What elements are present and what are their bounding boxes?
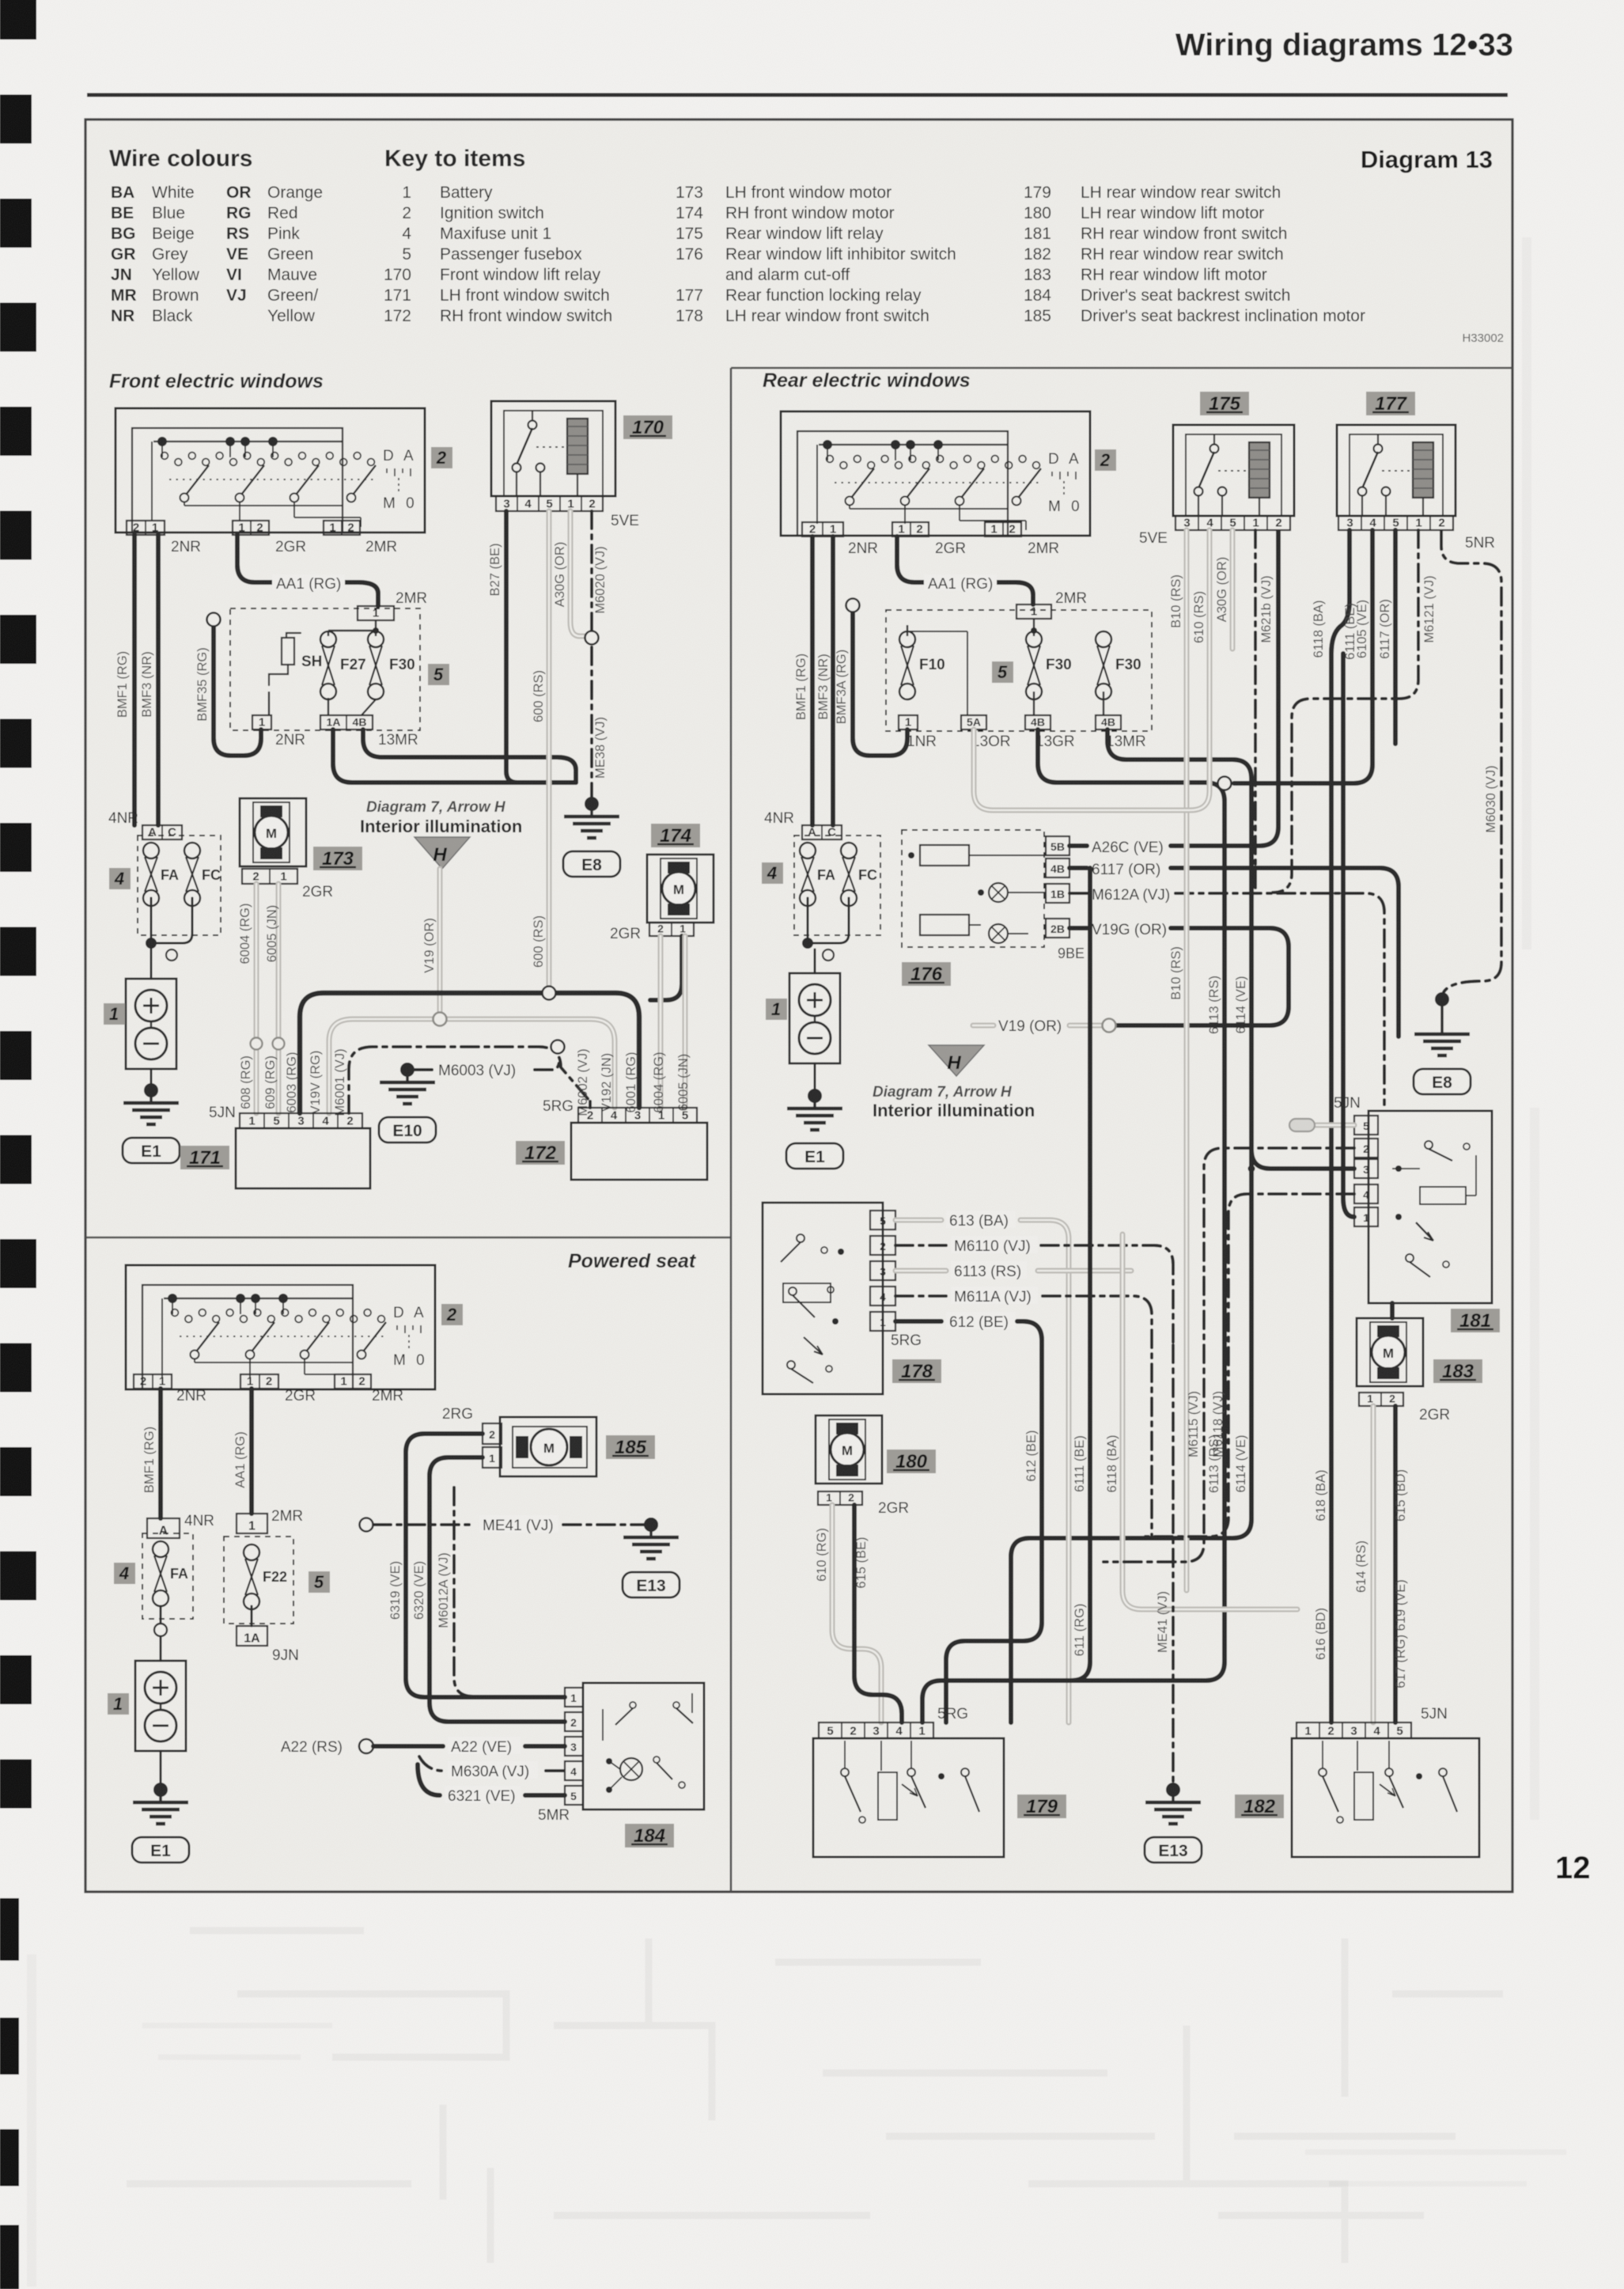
- connector 2GR motor 173: [242, 869, 333, 900]
- passenger fusebox 5 (front): [230, 608, 420, 730]
- switch 171 LH front window switch: [236, 1113, 370, 1188]
- wire M630A (VJ): [419, 1757, 565, 1780]
- wire from 4B hairpin upper: [363, 730, 576, 783]
- wire 6118 (BA) relay177: [1312, 530, 1350, 1198]
- title Diagram 13: [1361, 146, 1493, 173]
- connector 2NR seat: [134, 1374, 172, 1389]
- connector 2GR motor 174: [610, 923, 694, 943]
- fusebox 5 (seat): [224, 1537, 293, 1624]
- binding holes left edge: [0, 0, 36, 2289]
- connector motor 185: [442, 1406, 502, 1468]
- connector 2GR under ignition: [233, 521, 269, 535]
- label 2GR: [275, 539, 306, 555]
- label 183: [1433, 1359, 1482, 1383]
- wires maxifuse to battery rear: [802, 898, 849, 973]
- label 5: [992, 661, 1013, 683]
- connector 2NR rear: [802, 522, 843, 536]
- connector 5A / 13OR: [961, 715, 1011, 750]
- label 5JN: [209, 1105, 236, 1121]
- label 1: [766, 999, 787, 1020]
- label 178: [892, 1359, 941, 1383]
- scan bleed-through (decorative): [127, 1931, 1503, 2263]
- connector 1A 4B bottom of fusebox: [320, 698, 418, 748]
- wire BMF1 (RG): [115, 535, 134, 825]
- switch 172 RH front window switch: [571, 1108, 707, 1180]
- legend: Key to items: [384, 146, 1365, 325]
- wire BMF35 (RG) from fusebox 1: [195, 613, 261, 756]
- label 173: [313, 847, 362, 870]
- ground E1 (rear): [814, 1063, 816, 1090]
- wire M6030 (VJ): [1441, 532, 1501, 992]
- motor 185 seat backrest inclination: [500, 1417, 596, 1476]
- label 170: [623, 415, 672, 439]
- wire AA1 (RG) rear: [897, 536, 1033, 604]
- wire M612A (VJ): [1069, 887, 1384, 1105]
- wire V19 (OR) row: [973, 1018, 1116, 1035]
- wire AA1 (RG) seat: [233, 1389, 252, 1514]
- label 2NR: [848, 540, 878, 557]
- section label: Front electric windows: [109, 370, 324, 392]
- wire 6105 (VE) relay177: [1218, 530, 1373, 790]
- wire 6111 (BE): [1052, 868, 1090, 1681]
- ground E1 (seat): [160, 1751, 162, 1784]
- connector cells of 184: [565, 1688, 583, 1805]
- wire maxifuse to battery seat: [154, 1606, 167, 1661]
- label 4: [762, 862, 783, 884]
- connector 2GR seat: [240, 1374, 278, 1389]
- wire from 1A hairpin: [333, 730, 576, 783]
- connector 1 / 2NR bottom of fusebox: [252, 692, 305, 748]
- connector 4B / 13MR: [1096, 692, 1146, 750]
- wire 6111 (BE) top right: [1343, 603, 1357, 1217]
- connector relay 177: [1338, 516, 1453, 530]
- connector 1 / 2MR fusebox seat: [237, 1508, 303, 1533]
- wire to motor 183: [1390, 1303, 1395, 1318]
- outer border box: [85, 119, 1512, 1892]
- wires maxifuse to battery: [146, 898, 192, 979]
- ground E1 (front): [150, 1069, 153, 1086]
- label 5MR: [538, 1807, 570, 1824]
- wire 6117 (OR) relay177 down: [1378, 530, 1395, 744]
- wire 610 (RG) motor 180: [815, 1505, 881, 1722]
- label 172: [516, 1141, 565, 1165]
- maxifuse connector 4NR rear: [764, 810, 842, 839]
- wire 6321 (VE): [418, 1764, 565, 1805]
- relay 177 rear function locking relay: [1337, 425, 1456, 516]
- switch 181 RH rear window front switch: [1368, 1111, 1492, 1303]
- wire BMF1 (RG) seat: [142, 1389, 161, 1518]
- label 4: [114, 1563, 135, 1584]
- wire 600 (RS): [532, 511, 549, 993]
- wire A26C (VE): [1069, 532, 1278, 856]
- passenger fusebox 5 (rear): [886, 610, 1152, 731]
- label 181: [1451, 1309, 1500, 1332]
- label 1: [104, 1003, 125, 1025]
- wire M6110 (VJ): [895, 1236, 1173, 1345]
- label 5VE: [1139, 530, 1168, 547]
- fuse F30: [368, 631, 415, 699]
- switch 184 driver seat backrest switch: [583, 1683, 704, 1810]
- fuse F30 (first): [1026, 631, 1072, 699]
- maxifuse 4 (seat): [142, 1533, 193, 1619]
- wire 613 (BA): [895, 1211, 1069, 1722]
- wire AA1 (RG): [237, 535, 378, 606]
- rear window lift inhibitor switch 176: [902, 830, 1046, 947]
- label 5RG: [543, 1098, 574, 1115]
- wire M6012A (VJ): [437, 1487, 554, 1696]
- motor 174 RH front window: [647, 855, 714, 923]
- legend: Wire colours: [109, 146, 323, 325]
- wire BMF3 (NR) rear: [816, 536, 833, 825]
- wire 612 (BE): [895, 1312, 1042, 1722]
- switch 178 LH rear window front switch: [763, 1203, 883, 1394]
- label 2GR: [285, 1388, 316, 1404]
- label 2MR: [396, 590, 427, 607]
- switch 182 RH rear window rear switch: [1292, 1722, 1479, 1857]
- ignition switch 2 (powered seat): [126, 1265, 435, 1389]
- fuse F27: [320, 631, 366, 699]
- relay 175 rear window lift relay: [1173, 425, 1294, 516]
- wire ME41 (VJ) to E13 rear: [1156, 1345, 1173, 1783]
- label 176: [902, 962, 951, 986]
- label 180: [887, 1450, 936, 1473]
- connector 9BE of 176: [1046, 836, 1085, 961]
- label 5: [428, 664, 449, 685]
- connector 1 / 1NR: [899, 715, 937, 750]
- wire 6117 (OR): [1069, 862, 1399, 1036]
- label 5VE: [611, 513, 639, 529]
- header: Wiring diagrams 12-33: [1175, 28, 1513, 63]
- connector motor 183: [1359, 1393, 1450, 1424]
- ground E8 (rear): [1414, 992, 1471, 1094]
- motor 173 LH front window: [240, 798, 306, 866]
- label 2: [431, 447, 452, 468]
- wire M621b (VJ): [1255, 530, 1274, 892]
- motor 180 LH rear window lift: [816, 1415, 882, 1484]
- battery 1 (front): [126, 979, 176, 1069]
- wires motor 173 to switch 171: [238, 884, 285, 1113]
- wire M6003 (VJ) to E10: [415, 1060, 559, 1079]
- connector A / 4NR seat: [147, 1513, 214, 1538]
- label 5JN: [1421, 1706, 1448, 1722]
- connector 2MR rear fusebox top: [1016, 590, 1087, 619]
- wire BMF3A (RG) rear: [835, 599, 907, 756]
- relay 170: [491, 401, 615, 496]
- label 177: [1366, 392, 1415, 415]
- connector 1A / 9JN: [237, 1606, 299, 1664]
- wire BMF3 (NR): [140, 535, 158, 825]
- maxifuse unit 4 (rear): [794, 836, 880, 935]
- label 179: [1017, 1794, 1066, 1818]
- label 184: [625, 1824, 674, 1847]
- label 185: [606, 1435, 655, 1459]
- section label: Powered seat: [568, 1250, 697, 1272]
- connector relay 175: [1175, 516, 1290, 530]
- interior illumination note (front): [360, 799, 522, 869]
- wire 6320 (VE): [412, 1457, 565, 1722]
- label 2GR: [935, 540, 966, 557]
- connector 4B / 13GR: [1025, 692, 1075, 750]
- ground E13 (seat): [623, 1518, 680, 1597]
- gray bus wire: [329, 1013, 615, 1114]
- right box top line: [731, 367, 1512, 369]
- wire M6121 (VJ) to E8: [1273, 530, 1437, 892]
- battery 1 (rear): [789, 973, 840, 1063]
- wire ME41 (VJ) seat to E13: [360, 1515, 659, 1534]
- ground E10: [379, 1063, 436, 1143]
- wire M611A (VJ): [895, 1287, 1152, 1535]
- wire labels cluster left of switch 171: [239, 1048, 347, 1116]
- label 2MR: [1028, 540, 1059, 557]
- motor 174 feed wire: [650, 936, 682, 1000]
- label 4: [109, 868, 131, 889]
- label 5RG: [937, 1706, 968, 1722]
- wire 610 (RS): [974, 530, 1209, 810]
- label 5JN: [1334, 1095, 1361, 1112]
- wire B10 (RS): [1169, 530, 1187, 1590]
- label 2MR: [372, 1388, 403, 1404]
- ignition switch 2 (rear windows): [781, 411, 1090, 536]
- wire 6319 (VE): [388, 1434, 565, 1697]
- label 5RG: [891, 1332, 922, 1349]
- wire B27 (BE): [488, 511, 517, 783]
- main bus wire 6001/6003 (RG): [300, 987, 639, 1114]
- label 5NR: [1465, 535, 1495, 551]
- wire BMF1 (RG) rear: [794, 536, 812, 825]
- label 171: [180, 1146, 229, 1169]
- label 182: [1235, 1794, 1284, 1818]
- maxifuse unit 4 (front): [138, 836, 221, 935]
- ground E8 (front): [563, 797, 620, 877]
- connector 2GR rear: [892, 522, 929, 536]
- connector 2MR fusebox top: [358, 606, 394, 620]
- wire 616/618 from 181: [1314, 1198, 1331, 1722]
- gray lug wire cell5: [1289, 1119, 1354, 1131]
- fuse F30 (second): [1096, 631, 1141, 699]
- page number 12: [1555, 1851, 1591, 1885]
- fuse F10: [899, 631, 945, 699]
- ignition switch 2 (front windows): [115, 408, 425, 532]
- label 2NR: [171, 539, 201, 555]
- divider left horizontal: [85, 1237, 731, 1239]
- label 5: [309, 1571, 330, 1593]
- label 1: [108, 1693, 129, 1715]
- label 2: [1095, 449, 1116, 471]
- drawing number H33002: [1462, 332, 1504, 345]
- battery 1 (seat): [135, 1661, 186, 1751]
- dashed wires M6115/M6118 from 181: [1103, 1148, 1354, 1562]
- dashed bus wire M6001/M6002 (VJ): [349, 1040, 590, 1114]
- connector cells of 181: [1354, 1116, 1378, 1226]
- wire 6113 (RS) stub: [895, 1261, 1131, 1280]
- connector 2MR rear: [985, 522, 1021, 536]
- wires 185 into 184 cells: [554, 1697, 565, 1722]
- wire A30G (OR): [553, 511, 585, 636]
- wire A30G (OR) rear: [1215, 530, 1232, 649]
- wire 615 (BD)/617 (RG): [1394, 1406, 1408, 1722]
- label 2MR: [365, 539, 397, 555]
- label 2NR: [176, 1388, 206, 1404]
- header rule: [87, 93, 1508, 97]
- ground E13 (rear): [1145, 1783, 1202, 1863]
- wires motor 174 to switch 172: [576, 936, 691, 1116]
- connector 2NR under ignition: [127, 521, 165, 535]
- wire 6114 (VE) from 4B: [1011, 730, 1251, 1722]
- connector motor 180: [818, 1491, 909, 1518]
- divider vertical center: [730, 368, 733, 1892]
- wire 615 (BE) motor 180: [854, 1505, 902, 1722]
- section label: Rear electric windows: [763, 369, 971, 392]
- connector 2MR seat: [335, 1374, 371, 1389]
- label 2: [441, 1304, 463, 1325]
- wire M6020/ME38 (VJ) to E8: [585, 511, 608, 798]
- wire 6118 (BA) gray: [1105, 1234, 1297, 1609]
- connector 2MR under ignition: [324, 521, 360, 535]
- label 174: [651, 824, 700, 847]
- connector cells of 178: [870, 1211, 895, 1331]
- wire 6114 branch into cell3: [1248, 1150, 1355, 1173]
- label 175: [1200, 392, 1249, 415]
- switch 179 LH rear window rear switch: [813, 1722, 1004, 1857]
- wire V19G (OR): [1069, 922, 1289, 1025]
- wire V19 (OR) from arrow H: [422, 869, 440, 1019]
- interior illumination note (rear): [873, 1045, 1035, 1120]
- maxifuse connector 4NR: [108, 810, 182, 839]
- wire 614 (RS): [1354, 1406, 1373, 1722]
- wire A22 row: [281, 1737, 565, 1756]
- wire 6113 (RS) from 4B: [922, 730, 1225, 1722]
- motor 183 RH rear window lift: [1357, 1318, 1423, 1386]
- connector of relay 170: [496, 496, 603, 511]
